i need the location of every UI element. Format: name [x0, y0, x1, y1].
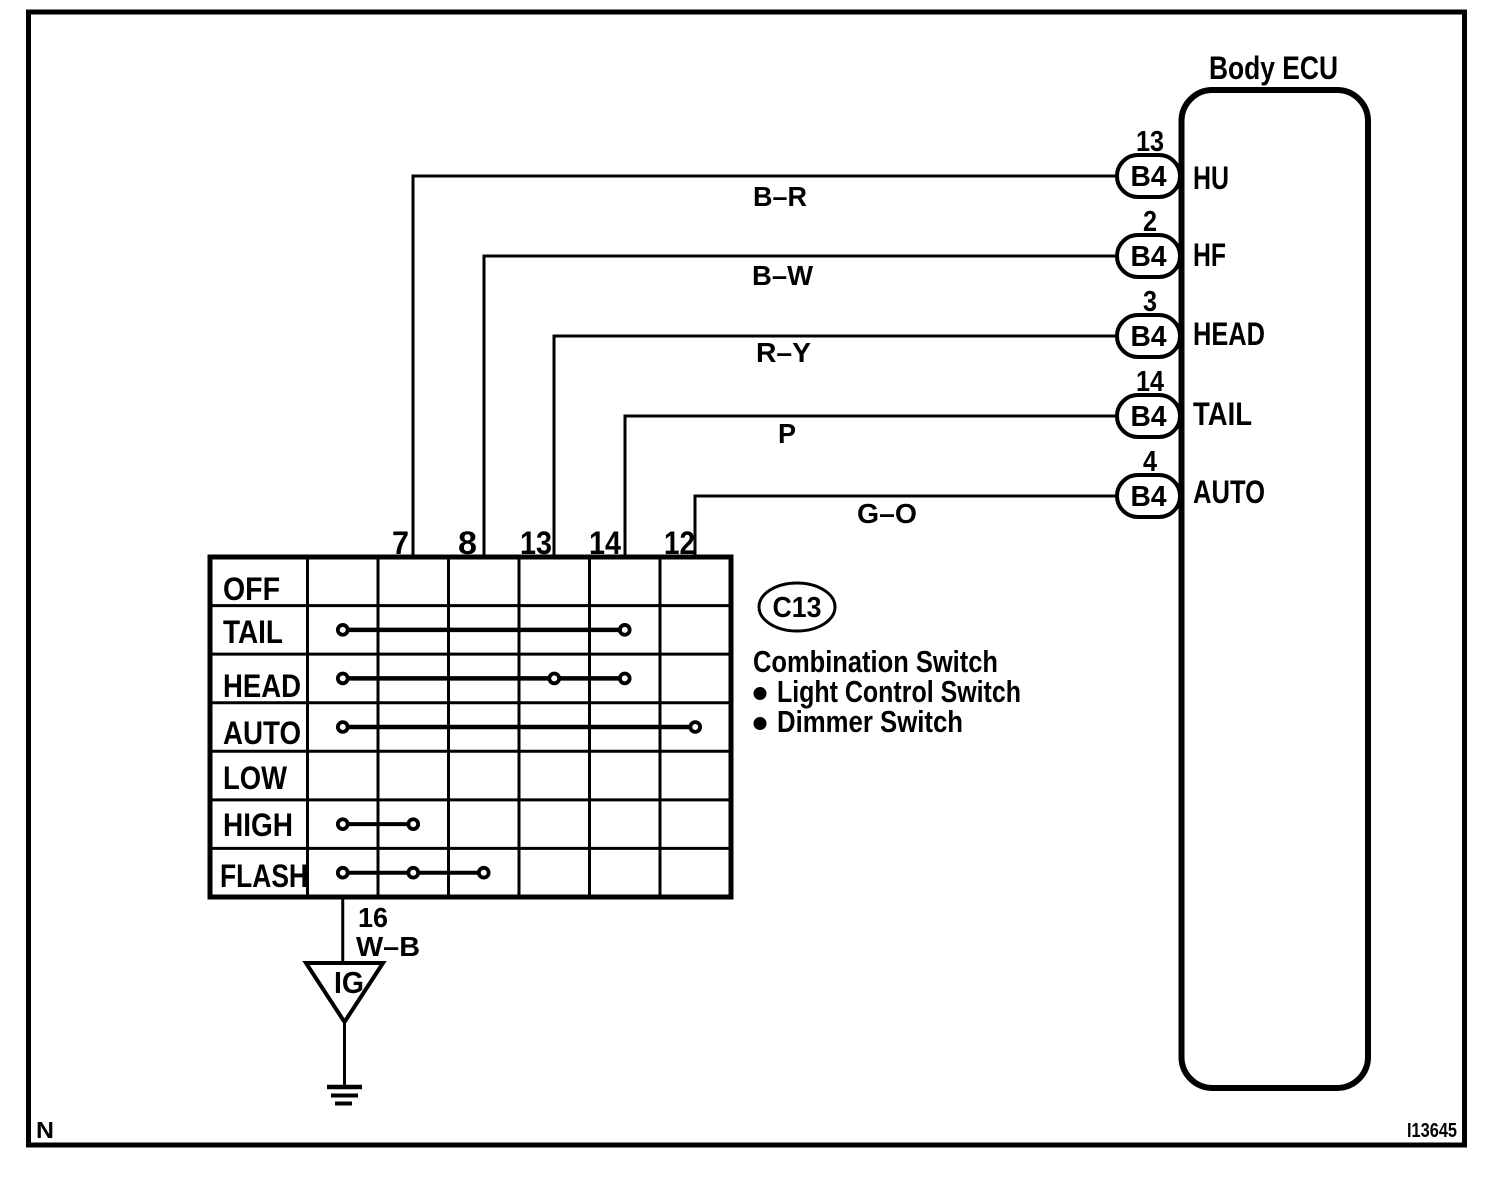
wire P: switch pin 14 to Body ECU B4-14 TAIL	[625, 416, 1117, 557]
row label FLASH	[220, 858, 308, 894]
HEAD row contact bar (common to pins 13,14)	[338, 674, 630, 684]
svg-text:FLASH: FLASH	[220, 858, 308, 894]
connector B4 pin 3	[1117, 286, 1180, 357]
svg-text:B4: B4	[1131, 161, 1167, 193]
connector B4 pin 2	[1117, 206, 1180, 277]
page letter N	[36, 1117, 54, 1143]
svg-text:TAIL: TAIL	[1193, 396, 1252, 432]
bullet item Light Control Switch	[754, 674, 1022, 709]
svg-text:W–B: W–B	[356, 931, 420, 962]
svg-text:B4: B4	[1131, 321, 1167, 353]
wire R-Y: switch pin 13 to Body ECU B4-3 HEAD	[554, 336, 1117, 557]
connector C13	[759, 583, 835, 631]
TAIL row contact bar (common to pin 14)	[338, 625, 630, 635]
wire pin 16 W-B from switch common to IG	[341, 897, 344, 963]
wire label B-R	[753, 181, 807, 212]
row label LOW	[223, 760, 288, 796]
pin label AUTO	[1193, 474, 1265, 510]
svg-text:B–R: B–R	[753, 181, 807, 212]
connector B4 pin 4	[1117, 446, 1180, 517]
column pin number 14	[589, 525, 621, 561]
svg-text:7: 7	[392, 525, 409, 561]
label Body ECU	[1209, 50, 1338, 86]
column pin number 12	[664, 525, 695, 561]
row label HEAD	[223, 668, 301, 704]
svg-text:G–O: G–O	[857, 498, 917, 529]
wire label G-O	[857, 498, 917, 529]
column pin number 7	[392, 525, 409, 561]
AUTO row contact bar (common to pin 12)	[338, 722, 700, 732]
IG power symbol	[306, 963, 383, 1022]
svg-text:Dimmer Switch: Dimmer Switch	[777, 704, 963, 739]
svg-text:12: 12	[664, 525, 695, 561]
svg-text:B4: B4	[1131, 481, 1167, 513]
connector B4 pin 13	[1117, 126, 1180, 197]
svg-text:LOW: LOW	[223, 760, 288, 796]
text Combination Switch	[753, 644, 998, 679]
bullet item Dimmer Switch	[754, 704, 964, 739]
Body ECU U1	[1182, 90, 1369, 1088]
svg-text:B–W: B–W	[752, 260, 814, 291]
svg-text:16: 16	[358, 902, 388, 933]
column pin number 8	[458, 525, 477, 561]
wire label P	[778, 418, 796, 449]
ground	[327, 1087, 362, 1104]
wire IG to ground	[343, 1022, 346, 1085]
svg-text:R–Y: R–Y	[756, 337, 811, 368]
wire label B-W	[752, 260, 814, 291]
pin label HU	[1193, 160, 1229, 196]
svg-text:AUTO: AUTO	[223, 715, 301, 751]
wire G-O: switch pin 12 to Body ECU B4-4 AUTO	[695, 496, 1117, 557]
svg-text:TAIL: TAIL	[223, 614, 283, 650]
svg-text:OFF: OFF	[223, 571, 280, 607]
row label HIGH	[223, 807, 293, 843]
pin label HEAD	[1193, 316, 1265, 352]
svg-text:I13645: I13645	[1407, 1120, 1457, 1142]
wire B-R: switch pin 7 to Body ECU B4-13 HU	[413, 176, 1117, 557]
pin number 16	[358, 902, 388, 933]
svg-text:HU: HU	[1193, 160, 1229, 196]
wire B-W: switch pin 8 to Body ECU B4-2 HF	[484, 256, 1117, 557]
wire label W-B	[356, 931, 420, 962]
svg-text:IG: IG	[334, 965, 364, 1000]
svg-text:HF: HF	[1193, 237, 1226, 273]
HIGH row contact bar (common to pin 7)	[338, 819, 418, 829]
row label TAIL	[223, 614, 283, 650]
svg-text:HIGH: HIGH	[223, 807, 293, 843]
FLASH row contact bar (common to pins 7,8)	[338, 868, 489, 878]
pin label TAIL	[1193, 396, 1252, 432]
connector B4 pin 14	[1117, 366, 1180, 437]
combination switch contact table grid	[210, 557, 731, 897]
svg-text:AUTO: AUTO	[1193, 474, 1265, 510]
svg-text:14: 14	[589, 525, 621, 561]
svg-text:P: P	[778, 418, 796, 449]
pin label HF	[1193, 237, 1226, 273]
wire label R-Y	[756, 337, 811, 368]
svg-text:N: N	[36, 1117, 54, 1143]
svg-text:13: 13	[520, 525, 552, 561]
svg-text:B4: B4	[1131, 401, 1167, 433]
svg-text:C13: C13	[773, 592, 822, 624]
svg-text:Body ECU: Body ECU	[1209, 50, 1338, 86]
row label AUTO	[223, 715, 301, 751]
svg-text:HEAD: HEAD	[1193, 316, 1265, 352]
column pin number 13	[520, 525, 552, 561]
svg-text:B4: B4	[1131, 241, 1167, 273]
figure number I13645	[1407, 1120, 1457, 1142]
row label OFF	[223, 571, 280, 607]
svg-text:8: 8	[458, 525, 477, 561]
svg-text:HEAD: HEAD	[223, 668, 301, 704]
